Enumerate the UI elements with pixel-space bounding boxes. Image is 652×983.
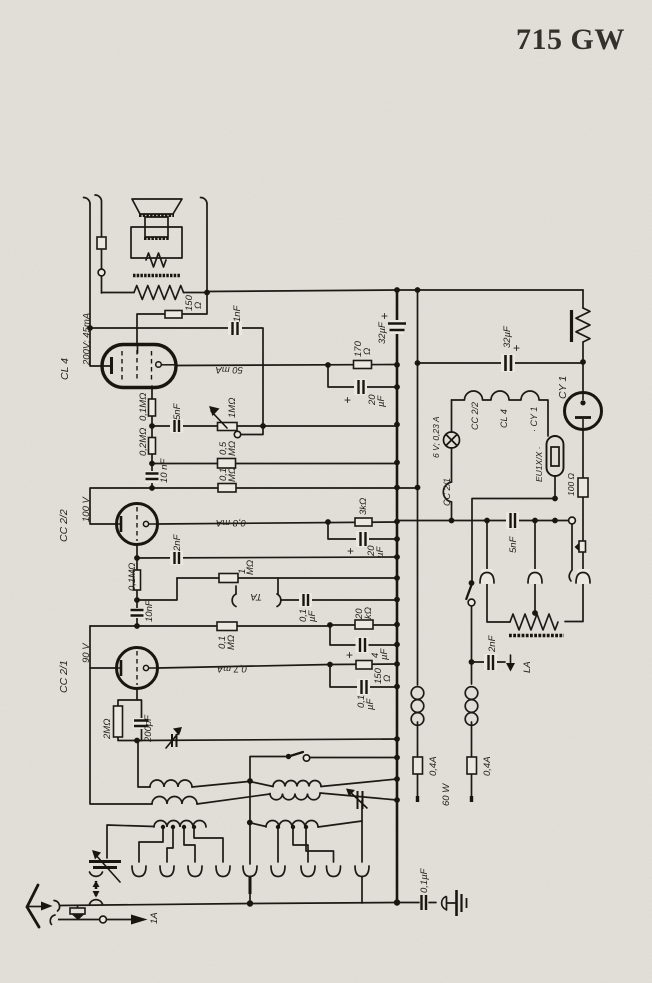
svg-text:EU1X/X ·: EU1X/X ·	[534, 447, 544, 482]
svg-text:MΩ: MΩ	[245, 560, 256, 575]
svg-text:32µF: 32µF	[502, 325, 513, 348]
svg-text:µF: µF	[379, 648, 390, 660]
svg-text:CC 2/2: CC 2/2	[470, 402, 480, 430]
svg-text:1nF: 1nF	[232, 304, 243, 322]
svg-text:Ω: Ω	[382, 675, 393, 682]
svg-text:CC 2/1: CC 2/1	[442, 478, 452, 506]
svg-text:5nF: 5nF	[172, 402, 183, 420]
svg-text:kΩ: kΩ	[363, 607, 374, 619]
svg-text:2nF: 2nF	[487, 634, 498, 653]
svg-text:MΩ: MΩ	[227, 441, 238, 456]
svg-text:60 W: 60 W	[441, 783, 452, 806]
svg-text:5nF: 5nF	[508, 535, 519, 553]
svg-text:715 GW: 715 GW	[516, 23, 625, 56]
svg-text:+: +	[381, 309, 388, 323]
svg-text:+: +	[344, 393, 351, 407]
svg-text:+: +	[347, 544, 354, 558]
svg-text:0,2MΩ: 0,2MΩ	[138, 428, 149, 456]
svg-text:2MΩ: 2MΩ	[102, 719, 113, 740]
svg-text:100 V: 100 V	[81, 496, 92, 522]
svg-text:0,7 mA: 0,7 mA	[217, 663, 247, 674]
svg-text:· CY 1: · CY 1	[529, 407, 539, 432]
svg-text:6 V; 0,23 A: 6 V; 0,23 A	[431, 416, 441, 458]
svg-text:MΩ: MΩ	[227, 467, 238, 482]
svg-text:10nF: 10nF	[144, 599, 155, 622]
svg-text:µF: µF	[307, 610, 318, 622]
svg-text:0,1µF: 0,1µF	[419, 867, 430, 893]
svg-text:Ω: Ω	[193, 302, 204, 309]
svg-text:CC 2/1: CC 2/1	[58, 660, 70, 693]
svg-text:50 mA: 50 mA	[216, 364, 243, 375]
svg-text:200pF: 200pF	[143, 714, 154, 743]
svg-text:90 V: 90 V	[81, 642, 92, 663]
svg-text:10 nF: 10 nF	[159, 458, 170, 483]
svg-text:2nF: 2nF	[172, 533, 183, 552]
svg-text:µF: µF	[375, 546, 386, 558]
svg-text:0,8 mA: 0,8 mA	[216, 517, 246, 528]
svg-text:0,1MΩ: 0,1MΩ	[127, 563, 138, 591]
svg-text:100 Ω: 100 Ω	[566, 472, 576, 496]
svg-text:µF: µF	[376, 395, 387, 407]
svg-text:0,4A: 0,4A	[428, 756, 439, 776]
svg-text:CL 4: CL 4	[499, 409, 509, 428]
svg-text:+: +	[513, 341, 520, 355]
svg-text:MΩ: MΩ	[226, 635, 237, 650]
svg-text:32µF: 32µF	[377, 321, 388, 344]
svg-text:CC 2/2: CC 2/2	[58, 509, 70, 542]
svg-text:CY 1: CY 1	[557, 376, 569, 399]
svg-text:CL 4: CL 4	[59, 358, 71, 380]
svg-text:µF: µF	[365, 698, 376, 710]
svg-text:200V; 45mA: 200V; 45mA	[82, 313, 93, 366]
svg-text:0,4A: 0,4A	[482, 756, 493, 776]
svg-text:+: +	[346, 648, 353, 662]
svg-text:1MΩ: 1MΩ	[227, 398, 238, 418]
svg-text:1A: 1A	[149, 912, 160, 924]
svg-text:0,1MΩ: 0,1MΩ	[138, 393, 149, 421]
svg-text:TA: TA	[251, 591, 262, 602]
svg-text:LA: LA	[522, 661, 533, 673]
svg-text:3kΩ: 3kΩ	[358, 498, 369, 515]
svg-text:Ω: Ω	[362, 348, 373, 355]
